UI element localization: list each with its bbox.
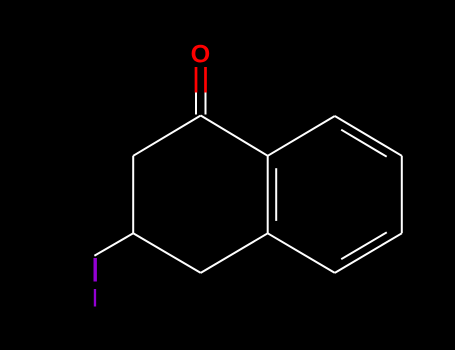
svg-text:I: I <box>92 285 99 313</box>
aromatic inner line of C6-C5 <box>341 232 387 259</box>
bond C8a-C8 (right ring upper-left diagonal) <box>268 116 335 156</box>
C=O double bond red half (oxygen side) <box>196 67 206 93</box>
svg-text:O: O <box>191 41 211 69</box>
bond C3-CH2 (to iodomethyl carbon, down-left) <box>94 233 133 255</box>
bond C8-C7 (right ring upper-right diagonal) <box>335 116 402 156</box>
bond C7-C6 (right ring right vertical edge) <box>401 156 403 234</box>
bond C1-C2 (carbonyl carbon to ring, down-left) <box>133 116 201 156</box>
bond CH2-I purple half (iodine side) <box>93 258 96 282</box>
aromatic inner line of C8-C7 <box>341 130 387 157</box>
C=O double bond white half (carbon side) <box>196 93 206 115</box>
bond C4-C4a (left ring lower-right diagonal) <box>201 233 268 273</box>
bond C2-C3 (left ring vertical edge) <box>132 156 134 234</box>
bond C5-C4a (right ring lower-left diagonal) <box>268 233 335 273</box>
bond C8a-C4a (shared fused edge vertical) <box>267 156 269 234</box>
bond C6-C5 (right ring lower-right diagonal) <box>335 233 402 273</box>
bond C1-C8a (carbonyl carbon to ring, down-right) <box>201 116 268 156</box>
aromatic inner line of shared edge <box>275 168 277 221</box>
bond C3-C4 (left ring lower-left diagonal) <box>133 233 201 273</box>
